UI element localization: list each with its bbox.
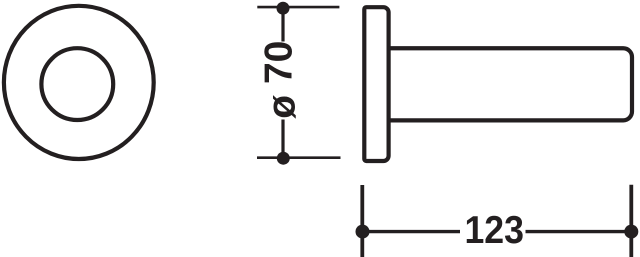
svg-text:ø 70: ø 70 — [258, 41, 304, 119]
outer circle (rosette front view) — [4, 6, 154, 159]
dim 123: right extension line — [629, 185, 633, 257]
plate (side view wall rosette) — [364, 7, 388, 161]
dim o70: top tick — [257, 6, 339, 9]
dim o70 top dot — [277, 2, 290, 15]
dim 123: horizontal line left segment — [362, 230, 460, 233]
rod (side view) — [388, 48, 632, 120]
dim o70: vertical line lower segment — [281, 120, 284, 159]
dim 123 right dot — [624, 225, 638, 239]
dim 123: horizontal line right segment — [526, 230, 632, 233]
dim 123: left extension line — [360, 185, 364, 257]
svg-text:123: 123 — [464, 209, 524, 252]
dim o70: vertical line upper segment — [281, 8, 284, 42]
inner circle (rod front view) — [41, 48, 113, 120]
dim o70: bottom tick — [257, 156, 341, 159]
dim o70 bottom dot — [277, 152, 290, 165]
dim 123 left dot — [356, 225, 370, 239]
